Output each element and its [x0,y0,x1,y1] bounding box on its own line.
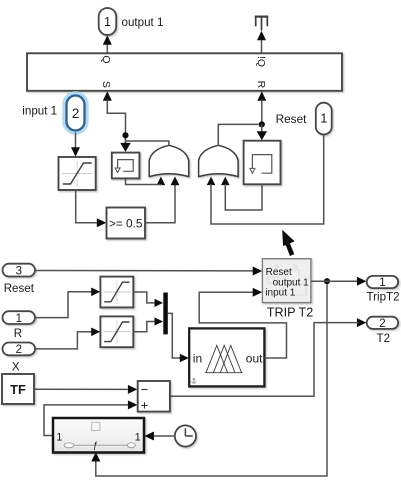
outport Out1 "output 1" [99,8,117,35]
saturation block SAT1 [100,277,133,308]
arrow into sum plus [128,400,137,409]
svg-text:in: in [193,351,202,365]
wire mux to fuzzy in [168,313,181,358]
svg-text:input 1: input 1 [265,287,295,298]
wire sum out to T2 port [170,323,359,397]
arrow into R [257,91,266,101]
svg-text:2: 2 [16,344,22,356]
svg-text:2: 2 [72,106,80,121]
mouse cursor [282,230,294,256]
svg-text:!Q: !Q [255,56,267,67]
arrow into G1 left input [157,177,166,186]
outport 1 TripT2 [367,276,399,289]
svg-text:T2: T2 [377,332,391,345]
wire clock to integrator [154,435,175,437]
arrow into mux in1 [155,299,164,307]
wire node B down to M2 [261,124,263,132]
svg-text:>= 0.5: >= 0.5 [109,216,143,230]
svg-text:Reset: Reset [276,112,308,126]
svg-text:ƒ: ƒ [93,440,98,450]
wire gate1 out to S [107,100,125,144]
svg-text:TRIP T2: TRIP T2 [267,305,313,319]
wire In2 to saturation [75,133,77,149]
svg-text:3: 3 [16,265,22,277]
arrow into TripT2 port [357,277,367,286]
wire inport3 to TRIP T2 Reset [35,270,254,272]
memory block M1 [112,153,140,179]
mux MX1 [163,293,168,335]
node C: TripT2 junction [324,278,330,284]
outport 2 T2 [367,317,399,330]
subsystem block TRIP T2 [262,259,311,303]
svg-text:output 1: output 1 [122,16,164,29]
arrow into S [103,91,112,101]
arrow into mux in2 [155,317,164,325]
svg-text:Q: Q [100,55,112,63]
svg-text:TripT2: TripT2 [367,291,400,304]
OR gate G1 [149,145,189,176]
svg-text:R: R [14,327,22,340]
svg-text:S: S [100,81,112,88]
arrow into G2 right input [221,177,230,186]
arrow into G1 right input (head) [171,177,180,186]
inport 2 X [3,343,36,357]
inport Reset (1) top right [316,103,332,135]
svg-text:2: 2 [379,318,385,330]
terminator T1 [255,16,268,31]
compare block >= 0.5 [107,208,146,239]
arrow into TRIP T2 Reset [253,267,263,276]
wire M2 out to gate2 right input [225,184,262,210]
S-R flip-flop block U1 [27,53,342,91]
node A: gate1 output junction [122,132,128,138]
wire TRIP out to TripT2 port [311,280,359,282]
inport 3 Reset [3,264,36,278]
arrow into M1 top [120,143,130,152]
wire inport1 to SAT1 [35,292,93,318]
fuzzy logic controller block FLC [189,328,264,386]
arrow into SAT2 [91,328,100,337]
wire Reset port to gate2 left input [211,135,324,224]
svg-text:1: 1 [16,313,22,325]
wire SAT2 to mux in2 [133,322,155,332]
wire SAT1 to mux in1 [133,292,155,303]
arrow into M2 top [257,131,267,140]
svg-text:1: 1 [320,112,327,126]
svg-text:out: out [246,351,263,365]
wire gate2 out to node B [218,124,258,145]
wire gate1 stub [126,141,169,146]
transfer block TF [2,374,34,404]
wire M1 out to gate1 left input [126,179,161,185]
arrow into fuzzy in [180,354,189,363]
wire !Q to terminator [261,39,263,53]
wire node2 to R [261,100,263,125]
svg-text:1: 1 [104,15,111,29]
inport 1 R [3,311,36,325]
svg-text:TF: TF [10,382,26,397]
node B: gate2 output junction [259,121,265,127]
inport In2 (selected, blue) "input 1" [64,93,86,132]
sum block SUM1 [138,381,170,413]
arrow into TRIP input 1 [253,288,263,297]
svg-text:1: 1 [135,432,141,444]
svg-text:R: R [255,81,267,89]
arrow into G2 left input [207,177,216,186]
wire fuzzy out to TRIP input 1 [199,292,286,358]
svg-text:+: + [141,398,149,413]
integrator subsystem block (flipped) [53,418,144,453]
OR gate G2 [199,145,239,176]
clock CLK1 [175,425,196,446]
svg-text:input 1: input 1 [22,105,57,118]
svg-text:X: X [12,361,20,374]
wire TF to sum minus [34,388,130,390]
svg-text:Reset: Reset [4,282,35,295]
arrow into T2 port [357,318,367,327]
memory block M2 [244,141,281,185]
wire Q to Out1 [106,44,108,54]
wire integrator out to sum plus [44,405,130,436]
arrow into integrator trigger (bottom) [91,452,100,461]
arrow into integrator right input [144,432,154,441]
wire node C to integrator trigger [96,284,327,476]
wire compare to gate1 right input [145,184,175,223]
wire inport2 to SAT2 [35,332,93,349]
saturation block SAT2 [100,316,133,347]
svg-text:−: − [141,382,149,397]
saturation block SAT0 [59,157,96,190]
wire SAT0 to compare [76,190,98,223]
arrow into SAT1 [91,288,100,297]
arrow into sum minus [128,385,137,394]
svg-text:1: 1 [379,277,385,289]
svg-text:1: 1 [56,432,62,444]
